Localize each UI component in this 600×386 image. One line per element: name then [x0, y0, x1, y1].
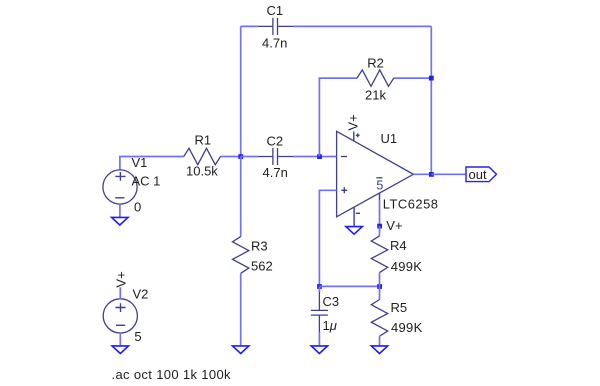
V2 plus mark [115, 303, 125, 312]
voltage source V2 [103, 287, 148, 345]
svg-text:U1: U1 [381, 131, 398, 146]
U1 pin 5 stub [379, 193, 381, 200]
node output junction [429, 172, 434, 177]
resistor R2 [357, 56, 394, 103]
V1 plus mark [115, 172, 125, 181]
ground at R5 [371, 346, 387, 354]
wire input node to C2 [241, 156, 258, 158]
wire V1 top to R1 [120, 157, 184, 171]
U1 positive supply plus mark [356, 133, 360, 137]
U1 inverting input minus mark [341, 156, 347, 158]
wire right vertical rail to output node [430, 26, 432, 174]
U1 V+ supply pin stub [353, 132, 355, 141]
svg-text:R4: R4 [390, 238, 407, 253]
wire V+ node to R4 [379, 226, 381, 236]
svg-text:R2: R2 [367, 56, 384, 71]
V1 minus mark [115, 197, 124, 199]
node V+ junction [377, 224, 382, 229]
svg-text:5: 5 [376, 178, 383, 192]
svg-text:5: 5 [134, 329, 141, 344]
capacitor C3 [311, 292, 339, 333]
wire left vertical rail C1 to input node [240, 26, 242, 156]
svg-text:V+: V+ [386, 218, 402, 233]
wire R5 to ground [379, 336, 381, 346]
U1 negative supply minus mark [356, 212, 360, 214]
wire noninverting input down to C3 node [319, 190, 336, 286]
wire op-amp output to out node [413, 173, 431, 175]
svg-text:R3: R3 [251, 239, 268, 254]
wire V1 to ground [119, 204, 121, 217]
port out [466, 167, 497, 182]
ground at V1 [112, 217, 128, 225]
node input junction [238, 154, 243, 159]
node C3 top junction [317, 284, 322, 289]
ground at op-amp V- [346, 227, 362, 235]
wire R4 bottom to divider node [379, 273, 381, 287]
wire C3 to ground [318, 332, 320, 346]
wire R2 right to output rail [394, 77, 432, 79]
resistor R4 [371, 236, 422, 274]
svg-text:V1: V1 [132, 155, 148, 170]
resistor R3 [233, 237, 273, 274]
resistor R5 [371, 300, 422, 337]
wire C2 to inverting input [294, 156, 337, 158]
V2 minus mark [116, 324, 125, 326]
node inverting input junction [317, 154, 322, 159]
wire V2 to ground [119, 333, 121, 346]
svg-text:1μ: 1μ [323, 318, 337, 333]
wire input node down to R3 [240, 157, 242, 237]
svg-text:V+: V+ [114, 271, 129, 287]
svg-text:10.5k: 10.5k [186, 163, 218, 178]
svg-text:562: 562 [251, 259, 273, 274]
wire divider node to R5 [379, 286, 381, 299]
node divider junction [377, 284, 382, 289]
capacitor C1 [258, 3, 294, 51]
wire top feedback rail right segment [294, 25, 432, 27]
svg-text:499K: 499K [391, 259, 423, 274]
svg-text:0: 0 [134, 200, 141, 215]
svg-text:out: out [469, 167, 487, 182]
svg-text:R5: R5 [391, 300, 408, 315]
svg-text:V2: V2 [133, 287, 149, 302]
wire top feedback rail left segment [241, 25, 258, 27]
ground at R3 [233, 346, 249, 354]
svg-text:499K: 499K [391, 320, 423, 335]
svg-text:C3: C3 [323, 294, 340, 309]
svg-text:4.7n: 4.7n [263, 165, 288, 180]
svg-text:21k: 21k [365, 88, 386, 103]
wire bottom link C3 node to divider node [319, 285, 379, 287]
wire R3 to ground [240, 273, 242, 346]
wire pin5 to V+ node [379, 200, 381, 226]
resistor R1 [184, 133, 221, 179]
svg-text:LTC6258: LTC6258 [383, 197, 439, 212]
svg-text:.ac oct 100 1k 100k: .ac oct 100 1k 100k [112, 367, 232, 382]
wire R1 to input node [221, 156, 241, 158]
U1 V- supply pin stub [353, 207, 355, 226]
op-amp U1 [337, 131, 439, 226]
svg-text:V+: V+ [345, 114, 360, 130]
wire R2 left drop to inverting node [319, 78, 357, 156]
svg-text:AC 1: AC 1 [132, 174, 161, 189]
svg-text:R1: R1 [195, 133, 212, 148]
node R2 output rail junction [429, 76, 434, 81]
ground at V2 [112, 346, 128, 354]
wire C3 node to C3 [318, 286, 320, 292]
wire output node to port [431, 173, 466, 175]
svg-text:4.7n: 4.7n [262, 36, 287, 51]
U1 noninverting input plus mark [341, 187, 347, 193]
capacitor C2 [258, 134, 294, 181]
ground at C3 [311, 346, 327, 354]
svg-text:C2: C2 [267, 134, 284, 149]
svg-text:C1: C1 [267, 3, 284, 18]
wire V2 top stub [119, 287, 121, 299]
voltage source V1 [103, 155, 161, 215]
